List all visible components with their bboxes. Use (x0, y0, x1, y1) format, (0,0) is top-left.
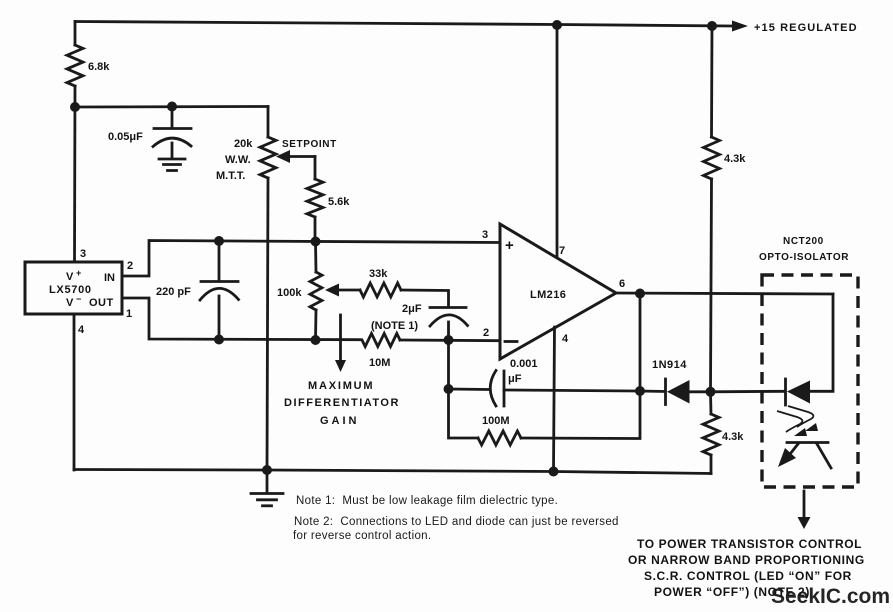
wire 2uF node down to 0.001uF line (447, 340, 450, 389)
label SETPOINT (282, 139, 337, 150)
resistor R 33k (360, 283, 401, 297)
potentiometer R 20k W.W. M.T.T. (SETPOINT) (260, 137, 276, 178)
svg-text:20k: 20k (234, 138, 253, 150)
svg-text:100M: 100M (482, 415, 510, 427)
control destination text (628, 537, 865, 599)
value label 100k (277, 287, 302, 299)
LED inside opto (711, 379, 811, 405)
ground below 0.05uF (159, 159, 185, 171)
svg-text:4: 4 (78, 324, 85, 336)
value label 100M (482, 415, 510, 427)
node 220pF top (214, 236, 224, 246)
net label +15 REGULATED (754, 22, 858, 34)
value label 1N914 (652, 359, 687, 371)
wire top +15 supply rail (75, 22, 731, 27)
svg-text:Note 2: Connections to LED an: Note 2: Connections to LED and diode can… (294, 516, 619, 528)
pin label 2 (op-amp -) (483, 327, 489, 339)
svg-text:1: 1 (126, 308, 132, 320)
pin label 3 (op-amp +) (482, 229, 488, 241)
svg-text:OUT: OUT (89, 297, 114, 309)
svg-text:SETPOINT: SETPOINT (282, 139, 337, 150)
label MAXIMUM DIFFERENTIATOR GAIN with arrow (284, 315, 400, 427)
value label 20k W.W. M.T.T. (216, 138, 253, 182)
value label 2uF (402, 303, 422, 315)
wire wiper to 5.6k (314, 157, 317, 180)
svg-text:100k: 100k (277, 287, 302, 299)
node 100k pot bottom (311, 335, 321, 345)
svg-text:SeekIC.com: SeekIC.com (771, 585, 890, 608)
node 2uF / 10M junction (444, 335, 454, 345)
pin label 7 (559, 245, 565, 257)
svg-text:5.6k: 5.6k (328, 196, 350, 208)
capacitor C 0.001uF (449, 371, 641, 407)
svg-text:2: 2 (483, 327, 489, 339)
svg-text:LX5700: LX5700 (49, 284, 92, 296)
wire 100M feedback loop (449, 389, 641, 439)
node top rail to 4.3k junction (707, 21, 717, 31)
wire LX5700 pin2 to op-amp + input line (122, 241, 500, 277)
value label 33k (369, 268, 388, 280)
node 6.8k / divider junction (70, 102, 80, 112)
wire output into opto LED loop (809, 294, 833, 391)
label (NOTE 1) (371, 320, 418, 332)
pin label 2 (127, 260, 133, 272)
note 2 text (294, 516, 619, 528)
value label 5.6k (328, 196, 350, 208)
wire op-amp output line (616, 293, 833, 294)
pin label 4 (78, 324, 85, 336)
potentiometer R 100k (310, 242, 322, 341)
svg-text:7: 7 (559, 245, 565, 257)
svg-text:+: + (76, 268, 81, 278)
op-amp U2 LM216 (500, 224, 616, 359)
resistor R 100M (478, 431, 521, 445)
svg-text:TO POWER TRANSISTOR CONTROL: TO POWER TRANSISTOR CONTROL (637, 537, 862, 551)
wire 4.3k to 1N914 node (crosses output line) (711, 179, 712, 392)
+15 REGULATED output arrow (732, 21, 748, 32)
pin label 4 (op-amp) (562, 333, 569, 345)
wire op-amp pin4 to ground rail (554, 327, 555, 472)
svg-text:+: + (505, 237, 514, 254)
svg-text:IN: IN (104, 272, 115, 284)
svg-text:4.3k: 4.3k (722, 431, 744, 443)
node 0.001uF / 1N914 junction (635, 386, 645, 396)
svg-text:(NOTE 1): (NOTE 1) (371, 320, 418, 332)
svg-text:2μF: 2μF (402, 303, 422, 315)
node top rail to op-amp pin7 junction (552, 20, 562, 30)
resistor R 10M (362, 334, 400, 347)
svg-text:0.05μF: 0.05μF (108, 131, 143, 143)
svg-text:DIFFERENTIATOR: DIFFERENTIATOR (284, 397, 400, 409)
svg-text:GAIN: GAIN (320, 415, 360, 427)
svg-text:OR NARROW BAND PROPORTIONING: OR NARROW BAND PROPORTIONING (628, 553, 865, 567)
node 0.001uF / 100M left junction (444, 384, 454, 394)
wire 4.3k lower to ground rail (710, 455, 713, 474)
wire horizontal from 6.8k junction to 20k pot (75, 105, 268, 108)
capacitor C 220pF (200, 241, 239, 340)
pin label 1 (126, 308, 132, 320)
svg-text:μF: μF (508, 373, 522, 385)
wire output down to 0.001uF line (639, 294, 642, 392)
IC U1 LX5700 temperature transducer box (25, 262, 122, 314)
light emission arrows (777, 406, 818, 436)
note 1 text (296, 495, 558, 507)
svg-text:+15 REGULATED: +15 REGULATED (754, 22, 858, 34)
wire bottom ground rail (74, 470, 711, 474)
wire op-amp pin7 to +15 rail (556, 25, 559, 257)
resistor R 5.6k (307, 179, 323, 217)
node 0.05uF tap (167, 102, 177, 112)
resistor R 4.3k lower (709, 392, 712, 414)
resistor R 4.3k upper (704, 137, 720, 179)
svg-text:W.W.: W.W. (225, 154, 251, 166)
phototransistor inside opto (778, 443, 831, 469)
wire LX5700 pin1 to op-amp - input line (122, 298, 360, 340)
svg-text:V: V (66, 297, 74, 309)
resistor R 6.8k (67, 45, 83, 86)
svg-text:MAXIMUM: MAXIMUM (308, 380, 374, 392)
wire 6.8k to LX5700 pin3 vertical (73, 86, 76, 262)
svg-text:3: 3 (482, 229, 488, 241)
svg-text:6: 6 (619, 278, 625, 290)
node op-amp output junction (635, 289, 645, 299)
pin label 6 (619, 278, 625, 290)
svg-text:for reverse control action.: for reverse control action. (293, 530, 431, 542)
svg-text:10M: 10M (369, 357, 390, 369)
wire +15 rail down right branch (710, 26, 713, 137)
value label 4.3k lower (722, 431, 744, 443)
node ground tap (262, 465, 272, 475)
wire 10M to op-amp - input (400, 339, 500, 343)
svg-text:3: 3 (80, 248, 86, 260)
wire 33k to 2uF (401, 290, 449, 306)
wire 20k pot lower lead down to ground rail (267, 178, 268, 470)
svg-text:Note 1: Must be low leakage f: Note 1: Must be low leakage film dielect… (296, 495, 558, 507)
svg-text:220 pF: 220 pF (156, 286, 191, 298)
svg-text:V: V (66, 271, 74, 283)
svg-text:33k: 33k (369, 268, 388, 280)
value label 6.8k (88, 61, 110, 73)
wire 20k pot top lead (267, 107, 270, 138)
svg-text:LM216: LM216 (530, 289, 566, 301)
100k pot wiper arrow (325, 284, 360, 297)
value label 220 pF (156, 286, 191, 298)
arrow to external control (798, 491, 811, 529)
svg-text:−: − (76, 294, 81, 304)
svg-text:S.C.R. CONTROL (LED “ON” FOR: S.C.R. CONTROL (LED “ON” FOR (644, 569, 852, 583)
value label 0.001 uF (508, 358, 538, 385)
value label 4.3k upper (724, 153, 746, 165)
20k pot wiper arrow (276, 150, 315, 163)
value label 0.05uF (108, 131, 143, 143)
pin label 3 (80, 248, 86, 260)
node 1N914 / 4.3k junction (706, 387, 716, 397)
svg-text:0.001: 0.001 (510, 358, 538, 370)
node 5.6k / 100k pot junction (311, 237, 321, 247)
svg-text:4: 4 (562, 333, 569, 345)
svg-text:NCT200: NCT200 (783, 236, 824, 247)
diode D1 1N914 (640, 379, 710, 405)
capacitor C 2uF (430, 308, 468, 341)
node op-amp pin4 to rail (549, 467, 559, 477)
ground symbol main (251, 470, 283, 506)
opto-isolator U3 NCT200 dashed box (762, 275, 858, 487)
node 220pF bottom (214, 335, 224, 345)
wire 5.6k to noninverting line (314, 217, 317, 241)
watermark SeekIC.com (771, 585, 890, 608)
label NCT200 OPTO-ISOLATOR (759, 236, 849, 263)
svg-text:4.3k: 4.3k (724, 153, 746, 165)
svg-text:M.T.T.: M.T.T. (216, 170, 245, 182)
wire LX5700 pin4 to ground rail (73, 314, 76, 470)
svg-text:1N914: 1N914 (652, 359, 687, 371)
svg-text:2: 2 (127, 260, 133, 272)
capacitor C 0.05uF (153, 106, 191, 158)
svg-text:OPTO-ISOLATOR: OPTO-ISOLATOR (759, 252, 849, 263)
wire left vertical from rail to 6.8k (74, 22, 77, 46)
svg-text:6.8k: 6.8k (88, 61, 110, 73)
value label 10M (369, 357, 390, 369)
